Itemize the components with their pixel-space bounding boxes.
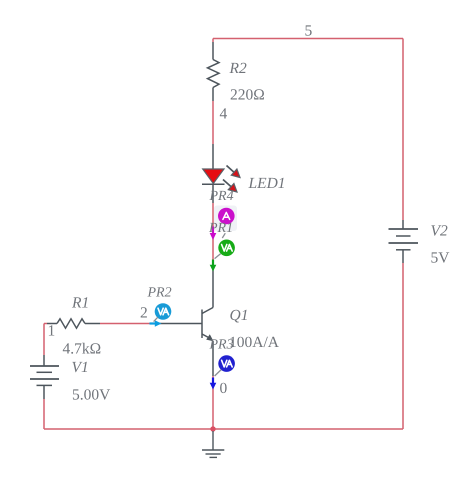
svg-text:100A/A: 100A/A bbox=[229, 334, 280, 351]
svg-text:PR4: PR4 bbox=[209, 189, 234, 204]
svg-text:R2: R2 bbox=[229, 60, 247, 77]
svg-text:PR1: PR1 bbox=[208, 221, 233, 236]
svg-text:V2: V2 bbox=[431, 223, 448, 240]
svg-text:4: 4 bbox=[220, 106, 228, 123]
svg-text:5: 5 bbox=[305, 23, 313, 40]
svg-text:R1: R1 bbox=[71, 295, 89, 312]
svg-text:V1: V1 bbox=[72, 359, 89, 376]
svg-text:0: 0 bbox=[220, 380, 228, 397]
svg-text:PR2: PR2 bbox=[147, 286, 172, 301]
svg-text:Q1: Q1 bbox=[230, 307, 249, 324]
svg-text:LED1: LED1 bbox=[248, 175, 286, 192]
svg-text:2: 2 bbox=[140, 305, 148, 322]
svg-text:220Ω: 220Ω bbox=[230, 87, 265, 104]
svg-text:5.00V: 5.00V bbox=[72, 387, 111, 404]
svg-text:4.7kΩ: 4.7kΩ bbox=[63, 341, 102, 358]
svg-text:1: 1 bbox=[48, 323, 56, 340]
svg-text:5V: 5V bbox=[431, 250, 451, 267]
